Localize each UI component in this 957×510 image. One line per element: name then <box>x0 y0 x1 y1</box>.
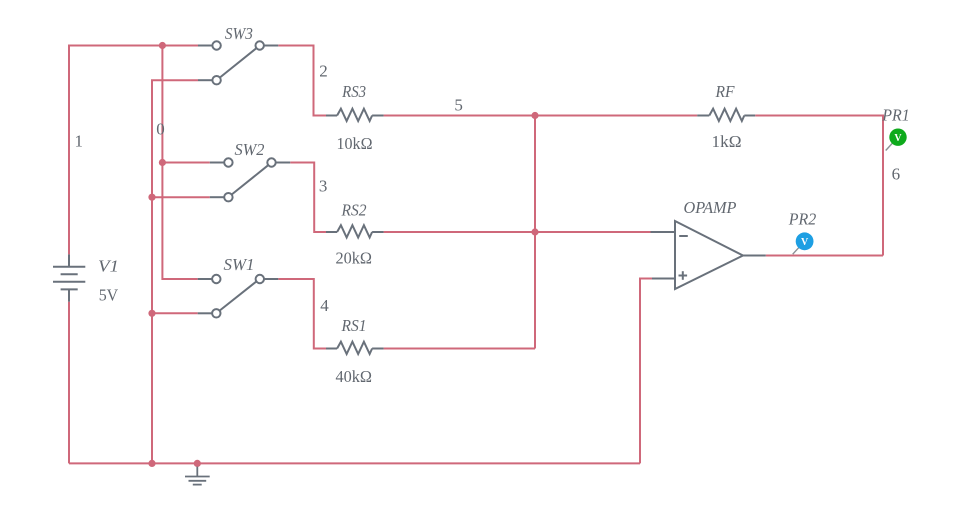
wire: supply vertical x162 (SW3 top to SW1 top) <box>162 46 197 280</box>
svg-text:20kΩ: 20kΩ <box>336 249 373 268</box>
wire: stub to SW2 bottom terminal <box>152 196 210 198</box>
wire: stub to SW2 top terminal <box>162 162 209 164</box>
svg-text:RF: RF <box>715 82 735 101</box>
svg-text:V1: V1 <box>98 257 119 276</box>
svg-text:1: 1 <box>75 131 84 150</box>
svg-text:2: 2 <box>319 62 328 81</box>
svg-text:4: 4 <box>320 296 329 315</box>
junction: supply bus at SW3 top <box>159 42 166 49</box>
wire: RF output down right side (node 6) <box>755 116 883 256</box>
junction: ground symbol tap <box>194 460 201 467</box>
wire: battery + up left side to SW3 top <box>69 46 198 255</box>
wire: RS1 output to node 5 vertical <box>384 348 535 350</box>
resistor RS1 <box>326 342 384 354</box>
junction: net 0 at SW2 bottom <box>148 194 155 201</box>
svg-text:5V: 5V <box>99 285 119 304</box>
switch SW3 <box>198 41 278 84</box>
svg-text:10kΩ: 10kΩ <box>337 134 373 153</box>
resistor RS2 <box>326 225 384 237</box>
probe PR2 <box>793 232 814 254</box>
op-amp U1 OPAMP <box>651 221 766 289</box>
svg-text:PR1: PR1 <box>881 106 909 125</box>
svg-text:RS3: RS3 <box>341 82 366 101</box>
junction: node 5 at RS2 row <box>531 228 538 235</box>
wire: ground bus up to op-amp plus input <box>640 279 652 464</box>
switch SW2 <box>210 158 290 201</box>
svg-text:RS2: RS2 <box>341 200 367 219</box>
wire: node 5 vertical join <box>534 116 536 349</box>
wire: net 0 vertical (SW3 bottom to ground bus) <box>152 80 198 463</box>
svg-text:SW2: SW2 <box>235 140 265 159</box>
junction: net 0 at ground bus <box>148 460 155 467</box>
wire: battery - down to bottom ground bus <box>68 302 70 464</box>
svg-text:SW3: SW3 <box>225 24 253 43</box>
svg-text:RS1: RS1 <box>341 316 367 335</box>
junction: net 0 at SW1 bottom <box>148 310 155 317</box>
probe PR1 <box>886 129 907 151</box>
svg-text:5: 5 <box>454 95 463 114</box>
wire: SW2 output down to RS2 (node 3) <box>290 163 326 233</box>
svg-text:1kΩ: 1kΩ <box>712 132 742 151</box>
svg-text:0: 0 <box>156 120 165 139</box>
wire: RS2 output to op-amp minus input <box>384 231 651 233</box>
svg-text:3: 3 <box>319 177 328 196</box>
resistor RS3 <box>326 109 384 121</box>
svg-text:OPAMP: OPAMP <box>684 198 737 217</box>
wire: SW1 output down to RS1 (node 4) <box>278 279 326 349</box>
svg-text:V: V <box>894 133 902 144</box>
svg-text:6: 6 <box>892 164 901 183</box>
junction: supply bus at SW2 top <box>159 159 166 166</box>
junction: node 5 at RS3 row <box>531 112 538 119</box>
wire: op-amp output to feedback corner <box>766 255 883 257</box>
svg-text:SW1: SW1 <box>224 255 255 274</box>
ground <box>185 467 210 485</box>
svg-text:40kΩ: 40kΩ <box>336 367 373 386</box>
resistor RF <box>697 109 755 121</box>
wire: RS3 output to RF (node 5 bus) <box>384 115 698 117</box>
wire: bottom ground bus <box>69 462 640 464</box>
wire: SW3 output down to RS3 (node 2) <box>278 46 326 116</box>
svg-text:V: V <box>801 237 809 248</box>
svg-text:PR2: PR2 <box>788 210 817 229</box>
switch SW1 <box>198 275 279 318</box>
wire: stub to SW1 bottom terminal <box>152 312 198 314</box>
battery V1 <box>53 254 85 301</box>
